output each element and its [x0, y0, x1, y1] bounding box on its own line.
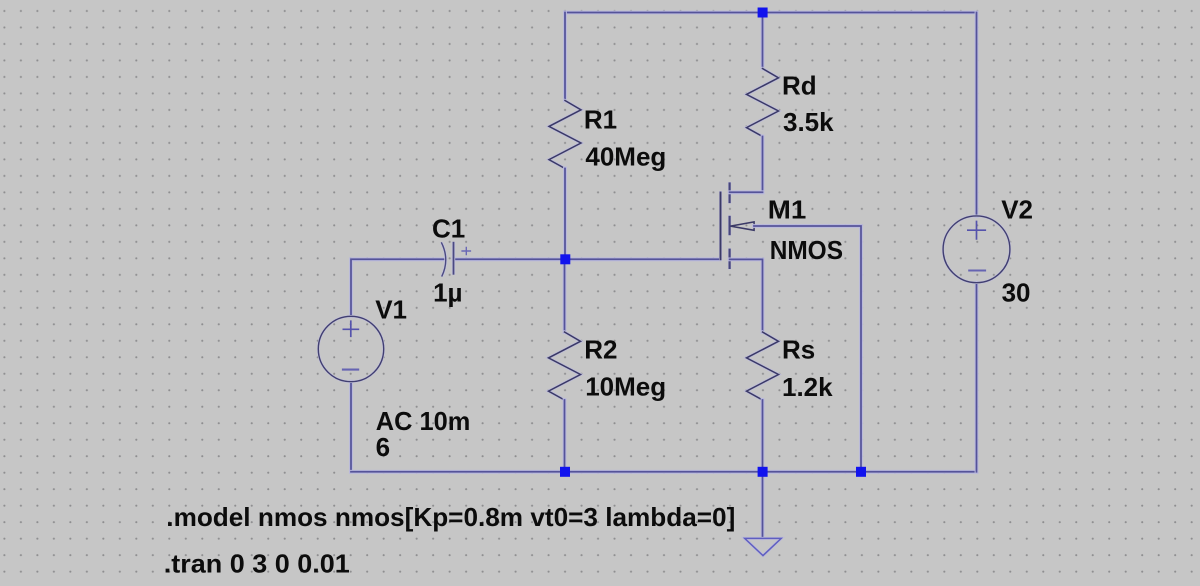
wire V1 to C1	[351, 259, 445, 316]
svg-text:1.2k: 1.2k	[782, 372, 833, 402]
voltage source V1	[318, 316, 383, 381]
svg-text:V2: V2	[1001, 194, 1033, 224]
svg-text:10Meg: 10Meg	[585, 372, 666, 402]
wire R2 top	[563, 259, 567, 332]
svg-text:M1: M1	[768, 195, 807, 225]
svg-text:NMOS: NMOS	[770, 235, 843, 265]
capacitor C1	[441, 242, 471, 277]
node junction bottom ground	[758, 467, 768, 477]
svg-text:Rs: Rs	[782, 335, 815, 365]
wire R2 bottom	[563, 400, 567, 472]
node junction gate	[560, 254, 570, 264]
voltage source V2	[943, 13, 1010, 472]
svg-text:30: 30	[1002, 278, 1031, 308]
ground	[745, 538, 782, 555]
svg-text:.tran 0 3 0 0.01: .tran 0 3 0 0.01	[164, 549, 350, 579]
svg-text:40Meg: 40Meg	[585, 141, 666, 171]
svg-text:C1: C1	[432, 214, 465, 244]
wire Rd to drain	[761, 137, 765, 193]
wire V1 bottom	[349, 382, 353, 472]
svg-text:1µ: 1µ	[433, 278, 462, 308]
svg-text:V1: V1	[375, 294, 407, 324]
transistor M1	[721, 184, 763, 333]
svg-text:3.5k: 3.5k	[783, 107, 834, 137]
wire top-left vertical to R1	[563, 13, 567, 101]
resistor R2	[549, 332, 581, 400]
node junction bottom bulk	[856, 467, 866, 477]
wire C1 to gate	[454, 257, 720, 261]
resistor R1	[549, 101, 581, 169]
wire bulk to bottom rail	[754, 226, 861, 472]
resistor Rd	[747, 69, 779, 137]
wire bottom rail	[351, 470, 977, 474]
resistor Rs	[747, 332, 779, 400]
wire Rd top	[761, 13, 765, 69]
svg-text:Rd: Rd	[782, 71, 817, 101]
svg-text:.model nmos nmos[Kp=0.8m vt0=3: .model nmos nmos[Kp=0.8m vt0=3 lambda=0]	[166, 502, 735, 532]
wire top rail	[565, 11, 977, 15]
svg-text:R2: R2	[584, 335, 617, 365]
svg-text:6: 6	[376, 432, 390, 462]
wire R1 bottom to mid rail	[563, 169, 567, 260]
svg-text:R1: R1	[584, 104, 617, 134]
node junction bottom R2	[560, 467, 570, 477]
node junction top	[758, 8, 768, 18]
wire Rs bottom	[761, 400, 765, 472]
wire to ground	[761, 472, 765, 539]
